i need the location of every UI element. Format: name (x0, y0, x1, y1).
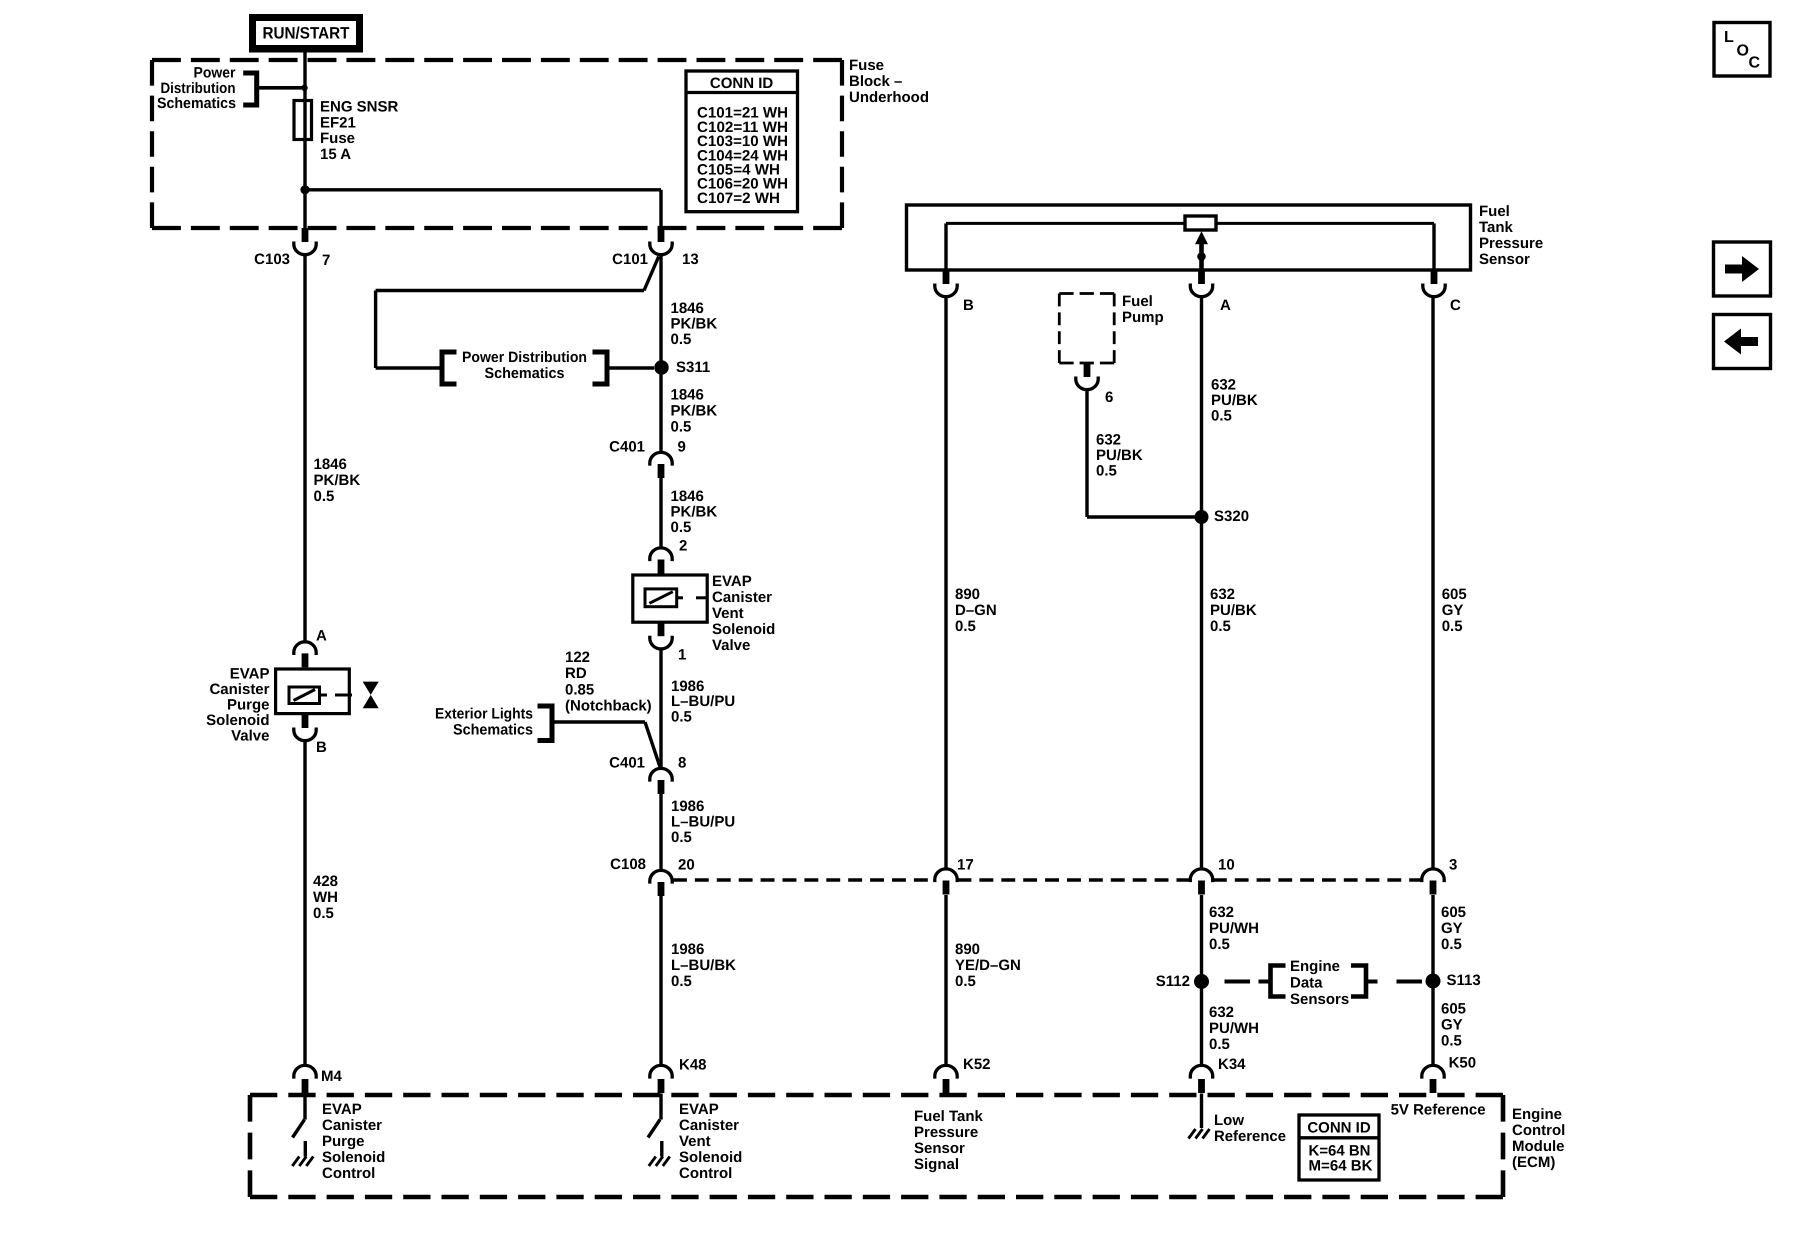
connector purge valve pin B (302, 714, 309, 728)
svg-text:YE/D–GN: YE/D–GN (955, 957, 1021, 974)
svg-text:0.5: 0.5 (671, 709, 692, 726)
svg-text:GY: GY (1441, 920, 1463, 937)
wire 890 YE/D-GN (pin17 to K52) (944, 895, 947, 1067)
hyperlink arrow icon (forward) (1714, 242, 1771, 296)
svg-text:Control: Control (679, 1165, 732, 1182)
svg-text:Fuse: Fuse (320, 130, 355, 147)
wire RUN/START to fuse EF21 (303, 52, 306, 228)
junction dot (branch to C101) (300, 185, 309, 194)
svg-text:Module: Module (1512, 1138, 1565, 1155)
svg-text:L–BU/PU: L–BU/PU (671, 693, 735, 710)
svg-text:Vent: Vent (712, 605, 744, 622)
svg-text:7: 7 (322, 252, 330, 269)
svg-text:PK/BK: PK/BK (671, 403, 718, 420)
svg-text:632: 632 (1209, 1004, 1234, 1021)
svg-text:1: 1 (678, 647, 686, 664)
ECM driver switch (vent control) (659, 1094, 662, 1120)
svg-text:0.5: 0.5 (1209, 1036, 1230, 1053)
svg-text:890: 890 (955, 941, 980, 958)
svg-text:1846: 1846 (671, 300, 704, 317)
sensor wiper arrow (1195, 231, 1208, 244)
ground (low reference) (1200, 1094, 1203, 1129)
svg-text:Fuel Tank: Fuel Tank (914, 1108, 984, 1125)
tag Engine Data Sensors (1225, 980, 1251, 984)
svg-text:3: 3 (1449, 857, 1457, 874)
svg-text:Exterior Lights: Exterior Lights (435, 706, 533, 723)
svg-text:S311: S311 (676, 359, 710, 376)
svg-text:0.5: 0.5 (671, 829, 692, 846)
ground (EVAP purge solenoid control) (304, 1141, 307, 1157)
splice S112 (1194, 974, 1209, 989)
connector sensor pin A (1198, 270, 1205, 284)
tag Power Distribution Schematics (S311) (442, 352, 457, 384)
svg-text:M4: M4 (321, 1068, 342, 1085)
svg-text:Power Distribution: Power Distribution (462, 349, 587, 366)
connector K34 (1190, 1065, 1212, 1078)
sensor resistive track (946, 222, 1434, 225)
svg-text:428: 428 (313, 873, 338, 890)
connector C103 pin 7 (302, 228, 309, 242)
dashed harness connector line (673, 878, 935, 882)
CONN ID table (ECM) (1299, 1115, 1379, 1180)
svg-text:Valve: Valve (712, 637, 750, 654)
svg-text:PK/BK: PK/BK (671, 316, 718, 333)
svg-text:0.5: 0.5 (314, 488, 335, 505)
svg-text:Control: Control (322, 1165, 375, 1182)
svg-text:CONN ID: CONN ID (1307, 1120, 1371, 1137)
svg-text:0.85: 0.85 (565, 682, 594, 699)
svg-text:K50: K50 (1449, 1055, 1477, 1072)
svg-text:S113: S113 (1447, 972, 1481, 989)
svg-text:Power: Power (194, 65, 236, 82)
connector sensor pin C (1431, 270, 1438, 284)
svg-text:Solenoid: Solenoid (206, 712, 269, 729)
svg-text:D–GN: D–GN (955, 602, 997, 619)
connector purge valve pin A (294, 642, 316, 655)
svg-text:1986: 1986 (671, 941, 704, 958)
connector M4 (294, 1065, 316, 1078)
svg-text:S112: S112 (1156, 973, 1190, 990)
svg-text:Schematics: Schematics (453, 722, 533, 739)
svg-text:Pressure: Pressure (914, 1124, 978, 1141)
svg-text:M=64 BK: M=64 BK (1309, 1158, 1373, 1175)
sensor element box (1185, 216, 1216, 230)
ground (EVAP vent solenoid control) (660, 1141, 663, 1157)
splice S113 (1426, 974, 1441, 989)
connector sensor pin B (943, 270, 950, 284)
svg-text:EF21: EF21 (320, 115, 356, 132)
svg-text:Purge: Purge (322, 1133, 365, 1150)
svg-text:0.5: 0.5 (1211, 408, 1232, 425)
EVAP canister purge solenoid valve U1 (276, 669, 350, 714)
svg-text:0.5: 0.5 (1096, 463, 1117, 480)
svg-text:RUN/START: RUN/START (263, 24, 350, 42)
svg-text:0.5: 0.5 (1210, 618, 1231, 635)
svg-text:Tank: Tank (1479, 219, 1514, 236)
svg-text:15 A: 15 A (320, 146, 351, 163)
splice S320 (1195, 510, 1209, 524)
wire 632 PU/BK (sensor A to pin 10) (1200, 295, 1203, 871)
wire 632 PU/WH (pin10 to K34) (1200, 895, 1203, 1067)
svg-text:10: 10 (1218, 857, 1235, 874)
connector vent valve pin 1 (658, 622, 665, 636)
svg-text:Fuel: Fuel (1479, 203, 1510, 220)
svg-text:6: 6 (1105, 389, 1113, 406)
wire 1846 PK/BK (C401 to vent valve pin 2) (659, 477, 662, 550)
connector C401 pin 9 (650, 452, 672, 465)
svg-text:C107=2 WH: C107=2 WH (697, 190, 780, 207)
svg-text:13: 13 (682, 251, 699, 268)
LOC reference icon box (1714, 23, 1770, 77)
svg-text:Engine: Engine (1512, 1106, 1562, 1123)
svg-text:Canister: Canister (679, 1117, 739, 1134)
svg-text:Sensor: Sensor (1479, 251, 1530, 268)
svg-text:0.5: 0.5 (955, 973, 976, 990)
svg-text:Underhood: Underhood (849, 89, 929, 106)
svg-text:L–BU/BK: L–BU/BK (671, 957, 736, 974)
svg-text:8: 8 (678, 755, 686, 772)
svg-text:632: 632 (1210, 586, 1235, 603)
svg-text:1846: 1846 (671, 488, 704, 505)
connector C401 pin 8 (650, 768, 672, 781)
svg-text:Data: Data (1290, 975, 1323, 992)
connector K50 (1422, 1065, 1444, 1078)
svg-text:0.5: 0.5 (671, 973, 692, 990)
splice S311 (654, 360, 668, 374)
svg-text:A: A (1220, 297, 1231, 314)
svg-text:Low: Low (1214, 1112, 1244, 1129)
svg-text:Schematics: Schematics (157, 95, 236, 112)
connector pin 3 (1422, 869, 1444, 882)
svg-text:Valve: Valve (231, 728, 269, 745)
svg-text:ENG SNSR: ENG SNSR (320, 99, 399, 116)
svg-text:S320: S320 (1214, 508, 1249, 525)
svg-text:PU/WH: PU/WH (1209, 920, 1259, 937)
connector pin 17 (935, 869, 957, 882)
wire exterior lights link to C401 pin 8 (555, 720, 646, 723)
svg-text:PU/WH: PU/WH (1209, 1020, 1259, 1037)
power feed box RUN/START (249, 14, 363, 53)
svg-text:WH: WH (313, 889, 338, 906)
svg-text:C103: C103 (254, 251, 290, 268)
wire 605 GY (sensor C to pin 3) (1431, 295, 1434, 871)
wire 1986 L-BU/PU (pin1 to C401-8) (659, 648, 662, 771)
connector fuel pump pin 6 (1084, 363, 1091, 377)
svg-text:Canister: Canister (712, 589, 772, 606)
ECM driver switch (purge control) (303, 1094, 306, 1120)
svg-text:C401: C401 (609, 755, 645, 772)
svg-text:GY: GY (1441, 1017, 1463, 1034)
svg-text:CONN ID: CONN ID (710, 75, 774, 92)
svg-text:(Notchback): (Notchback) (565, 698, 652, 715)
svg-text:632: 632 (1209, 904, 1234, 921)
svg-text:0.5: 0.5 (313, 905, 334, 922)
svg-text:C401: C401 (609, 439, 645, 456)
fuel pump dashed box (1059, 292, 1114, 295)
wire 1846 PK/BK (C101 to C401) (659, 254, 662, 454)
svg-text:L: L (1724, 29, 1734, 46)
svg-text:605: 605 (1441, 904, 1466, 921)
svg-text:PK/BK: PK/BK (671, 504, 718, 521)
svg-text:Solenoid: Solenoid (679, 1149, 742, 1166)
svg-text:RD: RD (565, 665, 587, 682)
wire 1846 PK/BK (C103 to purge valve A) (303, 254, 306, 644)
junction dot (power distribution take-off) (301, 85, 307, 91)
svg-text:Reference: Reference (1214, 1128, 1286, 1145)
svg-text:Engine: Engine (1290, 958, 1340, 975)
svg-text:PK/BK: PK/BK (314, 472, 361, 489)
svg-text:B: B (316, 739, 327, 756)
svg-text:L–BU/PU: L–BU/PU (671, 814, 735, 831)
svg-text:605: 605 (1442, 586, 1467, 603)
svg-text:PU/BK: PU/BK (1211, 392, 1258, 409)
svg-text:0.5: 0.5 (671, 519, 692, 536)
svg-text:Signal: Signal (914, 1156, 959, 1173)
svg-text:632: 632 (1211, 377, 1236, 394)
svg-text:1846: 1846 (671, 387, 704, 404)
connector C108 pin 20 (650, 870, 672, 883)
connector K48 (650, 1065, 672, 1078)
svg-text:5V Reference: 5V Reference (1391, 1102, 1486, 1119)
svg-text:EVAP: EVAP (322, 1101, 362, 1118)
svg-text:PU/BK: PU/BK (1210, 602, 1257, 619)
svg-text:Canister: Canister (322, 1117, 382, 1134)
CONN ID table (fuse block) (686, 71, 798, 212)
svg-text:C101: C101 (612, 251, 648, 268)
svg-text:K34: K34 (1218, 1056, 1246, 1073)
svg-text:0.5: 0.5 (1441, 1033, 1462, 1050)
svg-text:K52: K52 (963, 1056, 991, 1073)
svg-text:Sensors: Sensors (1290, 991, 1349, 1008)
connector pin 10 (1190, 869, 1212, 882)
svg-text:GY: GY (1442, 602, 1464, 619)
svg-text:A: A (316, 628, 327, 645)
svg-text:0.5: 0.5 (955, 618, 976, 635)
svg-text:EVAP: EVAP (679, 1101, 719, 1118)
svg-text:2: 2 (679, 538, 687, 555)
svg-text:0.5: 0.5 (671, 419, 692, 436)
svg-text:Control: Control (1512, 1122, 1565, 1139)
svg-text:605: 605 (1441, 1001, 1466, 1018)
wire tag link to node (259, 86, 302, 90)
svg-text:Vent: Vent (679, 1133, 711, 1150)
svg-text:K48: K48 (679, 1057, 707, 1074)
svg-text:Fuse: Fuse (849, 57, 884, 74)
fuel tank pressure sensor box (907, 205, 1471, 270)
wire 890 D-GN (sensor B to pin 17) (944, 295, 947, 871)
sensor internal wire B (944, 223, 947, 270)
svg-text:122: 122 (565, 649, 590, 666)
svg-text:EVAP: EVAP (712, 573, 752, 590)
svg-text:B: B (963, 297, 974, 314)
svg-text:C: C (1450, 297, 1461, 314)
svg-text:0.5: 0.5 (1441, 936, 1462, 953)
svg-text:Solenoid: Solenoid (712, 621, 775, 638)
svg-text:1846: 1846 (314, 456, 347, 473)
svg-text:Block –: Block – (849, 73, 902, 90)
wire branch to C101 (305, 188, 661, 191)
wire tag link to S311 (610, 366, 655, 369)
svg-text:17: 17 (957, 857, 974, 874)
svg-text:C108: C108 (610, 856, 646, 873)
hyperlink arrow icon (back) (1714, 315, 1771, 369)
connector vent valve pin 2 (650, 548, 672, 561)
wire 605 GY (pin3 to K50) (1431, 895, 1434, 1067)
svg-text:Pressure: Pressure (1479, 235, 1543, 252)
fuse EF21 ENG SNSR 15A (294, 101, 312, 140)
fuse block - underhood dashed outline (152, 58, 842, 62)
svg-text:Schematics: Schematics (485, 365, 565, 382)
wire branch from C101 to power distribution tag (644, 257, 659, 291)
svg-text:1986: 1986 (671, 798, 704, 815)
EVAP canister vent solenoid valve U2 (633, 575, 707, 622)
svg-text:(ECM): (ECM) (1512, 1154, 1555, 1171)
wire 632 PU/BK (fuel pump to S320) (1085, 389, 1088, 518)
svg-text:890: 890 (955, 586, 980, 603)
svg-text:Sensor: Sensor (914, 1140, 965, 1157)
svg-text:Canister: Canister (209, 681, 269, 698)
valve symbol (purge valve vent) (363, 682, 379, 695)
svg-text:632: 632 (1096, 432, 1121, 449)
sensor internal wire C (1432, 223, 1435, 270)
svg-text:C: C (1749, 55, 1761, 72)
svg-text:O: O (1737, 43, 1749, 60)
svg-text:20: 20 (678, 857, 695, 874)
connector K52 (935, 1065, 957, 1078)
svg-text:Pump: Pump (1122, 309, 1164, 326)
wire 428 WH (purge B to M4) (303, 741, 306, 1068)
svg-text:0.5: 0.5 (1442, 618, 1463, 635)
engine control module dashed outline (250, 1093, 1503, 1098)
svg-text:Solenoid: Solenoid (322, 1149, 385, 1166)
svg-text:0.5: 0.5 (1209, 936, 1230, 953)
svg-text:Purge: Purge (227, 697, 270, 714)
wire 1986 L-BU/BK (C108 to K48) (659, 896, 662, 1067)
wire 1986 L-BU/PU (C401-8 to C108) (659, 793, 662, 872)
svg-text:Fuel: Fuel (1122, 293, 1153, 310)
svg-text:0.5: 0.5 (671, 331, 692, 348)
svg-text:PU/BK: PU/BK (1096, 447, 1143, 464)
connector C101 pin 13 (658, 228, 665, 242)
svg-text:EVAP: EVAP (230, 666, 270, 683)
svg-text:9: 9 (678, 439, 686, 456)
